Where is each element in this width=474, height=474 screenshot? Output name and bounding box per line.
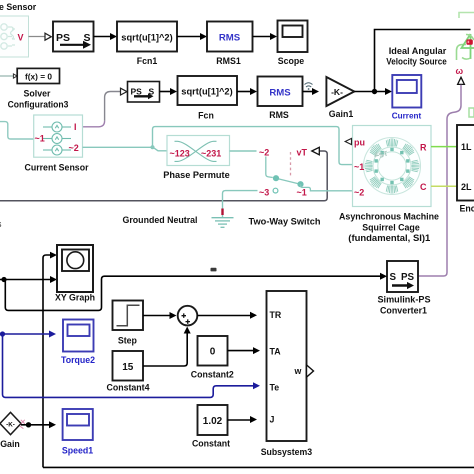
RMS block bbox=[258, 77, 303, 107]
red badge on source bbox=[466, 39, 472, 44]
svg-text:w: w bbox=[294, 366, 302, 376]
svg-text:(fundamental, SI)1: (fundamental, SI)1 bbox=[348, 233, 430, 243]
junction bbox=[26, 422, 31, 427]
svg-text:~2: ~2 bbox=[259, 147, 269, 157]
wire into current sensor port 1 bbox=[0, 122, 34, 139]
Solver Configuration3 block f(x)=0 bbox=[17, 68, 59, 83]
svg-text:-K-: -K- bbox=[331, 87, 343, 97]
wire junction to Simulink-PS converter1 bbox=[5, 276, 380, 310]
PS-Simulink converter block bbox=[53, 22, 94, 52]
annotation mark on wire bbox=[211, 268, 217, 272]
svg-text:~2: ~2 bbox=[354, 187, 364, 197]
wire I to PS-Simulink2 bbox=[83, 121, 105, 127]
wire to RMS1 bbox=[177, 36, 201, 38]
Asynchronous Machine block bbox=[353, 126, 432, 207]
svg-text:Fcn: Fcn bbox=[198, 111, 214, 121]
svg-text:Current: Current bbox=[392, 111, 422, 121]
svg-text:Asynchronous Machine: Asynchronous Machine bbox=[339, 211, 439, 221]
Current scope block bbox=[392, 75, 421, 108]
svg-text:Te: Te bbox=[270, 383, 280, 393]
svg-text:V: V bbox=[18, 33, 24, 43]
physical wire S-PS to w bbox=[419, 85, 462, 276]
PS input triangle bbox=[45, 33, 51, 40]
svg-text:Gain: Gain bbox=[0, 439, 20, 449]
Fcn1 block bbox=[117, 22, 177, 52]
Sum block bbox=[178, 306, 198, 326]
svg-text:Torque2: Torque2 bbox=[61, 355, 95, 365]
logging badge bbox=[305, 83, 313, 90]
wire to Fcn bbox=[160, 91, 171, 93]
svg-text:~2: ~2 bbox=[69, 143, 79, 153]
voltage sensor block V bbox=[0, 16, 29, 57]
svg-text:RMS: RMS bbox=[269, 88, 291, 99]
Step block bbox=[113, 301, 144, 331]
svg-text:TA: TA bbox=[270, 347, 282, 357]
Torque2 scope block bbox=[63, 320, 94, 352]
green wire R to 1L bbox=[431, 146, 457, 148]
svg-text:C: C bbox=[420, 182, 427, 192]
svg-text:2L: 2L bbox=[461, 182, 472, 192]
Speed1 scope block bbox=[63, 409, 93, 440]
Gain diamond bbox=[0, 412, 21, 434]
svg-text:f(x) = 0: f(x) = 0 bbox=[25, 72, 52, 82]
Constant block 1.02 bbox=[198, 405, 228, 435]
svg-text:vT: vT bbox=[297, 147, 308, 157]
svg-text:15: 15 bbox=[122, 362, 134, 373]
svg-text:PS: PS bbox=[131, 87, 143, 97]
Simulink-PS Converter1 block bbox=[387, 261, 418, 292]
svg-text:RMS1: RMS1 bbox=[216, 56, 241, 66]
svg-text:I: I bbox=[74, 122, 77, 132]
svg-text:~123: ~123 bbox=[170, 149, 190, 159]
teal junction bbox=[151, 145, 155, 149]
svg-text:Constant2: Constant2 bbox=[191, 369, 234, 379]
wire Gain1 to Current bbox=[354, 91, 385, 93]
svg-text:Constant4: Constant4 bbox=[106, 382, 149, 392]
blue wire into Torque2 bbox=[0, 333, 50, 335]
wire 15 to Sum bbox=[143, 334, 187, 367]
ground wire to switch ~3 bbox=[223, 191, 258, 218]
svg-text:Converter1: Converter1 bbox=[380, 306, 427, 316]
junction bbox=[372, 89, 377, 94]
Fcn block bbox=[178, 76, 238, 105]
svg-text:0: 0 bbox=[210, 347, 216, 358]
wire to RMS bbox=[237, 91, 251, 93]
Constant4 block 15 bbox=[113, 351, 144, 381]
svg-text:1.02: 1.02 bbox=[203, 416, 223, 427]
wire sensor ~2 to junction and permute bbox=[83, 147, 168, 151]
pale green fragment bbox=[469, 108, 474, 117]
svg-text:PS: PS bbox=[56, 32, 70, 44]
svg-text:Solver: Solver bbox=[24, 89, 51, 99]
svg-text:PS: PS bbox=[401, 272, 415, 283]
wire junction up over to machine ~1 bbox=[153, 127, 353, 165]
blue wire to Te bbox=[3, 334, 254, 397]
Subsystem3 block bbox=[267, 291, 314, 441]
svg-text:Ideal Angular: Ideal Angular bbox=[389, 46, 447, 56]
svg-text:Subsystem3: Subsystem3 bbox=[261, 447, 313, 457]
grounded neutral symbol bbox=[212, 218, 234, 228]
ST mark bbox=[374, 149, 390, 161]
Phase Permute block bbox=[167, 136, 230, 166]
Current Sensor block bbox=[34, 115, 83, 157]
svg-text:~1: ~1 bbox=[297, 187, 307, 197]
green wire C to 2L bbox=[431, 185, 457, 187]
wire 0 to TA bbox=[228, 350, 254, 352]
switch contacts bbox=[266, 157, 273, 178]
ideal angular velocity source icon bbox=[457, 13, 474, 61]
dashed vT line bbox=[290, 152, 292, 177]
vT control wire bbox=[0, 151, 327, 201]
wire Sum to TR bbox=[197, 315, 250, 317]
svg-text:Grounded Neutral: Grounded Neutral bbox=[123, 215, 198, 225]
svg-text:e Sensor: e Sensor bbox=[0, 2, 37, 12]
wire permute to switch ~2 bbox=[230, 150, 257, 152]
svg-text:sqrt(u[1]^2): sqrt(u[1]^2) bbox=[181, 87, 232, 97]
svg-text:XY Graph: XY Graph bbox=[55, 293, 95, 303]
svg-text:Speed1: Speed1 bbox=[62, 446, 93, 456]
vT port triangle bbox=[312, 147, 320, 155]
stator coil hatches and rotor bars bbox=[364, 138, 419, 193]
svg-text:-K-: -K- bbox=[6, 422, 15, 429]
Constant2 block 0 bbox=[198, 336, 228, 366]
svg-text:RMS: RMS bbox=[269, 110, 289, 120]
svg-text:Encoder: Encoder bbox=[460, 204, 474, 214]
Encoder block bbox=[457, 125, 474, 201]
svg-text:Scope: Scope bbox=[278, 56, 305, 66]
svg-text:S: S bbox=[390, 272, 397, 283]
XY Graph block bbox=[57, 245, 93, 292]
PS input triangle 2 bbox=[121, 88, 127, 95]
svg-text:Simulink-PS: Simulink-PS bbox=[378, 295, 431, 305]
wire gain to Speed1 bbox=[21, 424, 49, 426]
svg-text:ω: ω bbox=[456, 66, 464, 76]
blue junction bbox=[0, 331, 5, 336]
svg-text:Phase Permute: Phase Permute bbox=[163, 170, 229, 180]
Two-Way Switch bbox=[259, 147, 353, 197]
svg-text:Current Sensor: Current Sensor bbox=[25, 163, 90, 173]
svg-text:pu: pu bbox=[354, 138, 365, 148]
Gain1 triangle bbox=[326, 77, 354, 106]
wire Step to Sum bbox=[143, 315, 170, 317]
wire to Gain1 bbox=[303, 91, 313, 93]
svg-text:1L: 1L bbox=[461, 142, 472, 152]
wire from switch ~1 to machine ~2 bbox=[301, 184, 353, 191]
svg-text:TR: TR bbox=[270, 310, 282, 320]
svg-text:~1: ~1 bbox=[35, 134, 45, 144]
RMS1 block bbox=[207, 22, 253, 52]
red marks at gain output bbox=[20, 420, 25, 429]
svg-text:Two-Way Switch: Two-Way Switch bbox=[249, 217, 321, 227]
red marker on ground wire bbox=[221, 209, 223, 216]
wire to Scope bbox=[253, 36, 271, 38]
svg-text:sqrt(u[1]^2): sqrt(u[1]^2) bbox=[121, 33, 172, 43]
wire to Fcn1 bbox=[94, 36, 111, 38]
wire junction to velocity source bbox=[375, 30, 471, 92]
svg-text:Gain1: Gain1 bbox=[329, 109, 354, 119]
pu port triangle bbox=[345, 138, 351, 144]
svg-text:Fcn1: Fcn1 bbox=[137, 56, 158, 66]
svg-text:Constant: Constant bbox=[192, 439, 230, 449]
svg-text:Velocity Source: Velocity Source bbox=[386, 57, 447, 67]
svg-text:~3: ~3 bbox=[259, 187, 269, 197]
bottom wire bbox=[43, 466, 474, 468]
solver wire bbox=[0, 75, 14, 77]
svg-text:J: J bbox=[270, 415, 275, 425]
wire 1.02 to J bbox=[228, 419, 251, 421]
svg-text:R: R bbox=[420, 142, 427, 152]
svg-text:RMS: RMS bbox=[219, 33, 241, 44]
svg-text:Squirrel Cage: Squirrel Cage bbox=[362, 222, 420, 232]
wire into XY Graph input1 bbox=[43, 255, 50, 467]
w port triangle bbox=[458, 77, 465, 84]
wire into XY Graph input2 bbox=[0, 279, 51, 281]
wire V to PS-Simulink bbox=[29, 36, 46, 38]
Scope block bbox=[278, 21, 308, 53]
svg-text:~231: ~231 bbox=[201, 149, 221, 159]
svg-text:~1: ~1 bbox=[354, 162, 364, 172]
junction on input2 wire bbox=[1, 277, 6, 282]
PS-Simulink converter 2 block bbox=[128, 82, 160, 103]
svg-text:Configuration3: Configuration3 bbox=[8, 100, 69, 110]
svg-text:Step: Step bbox=[118, 336, 138, 346]
